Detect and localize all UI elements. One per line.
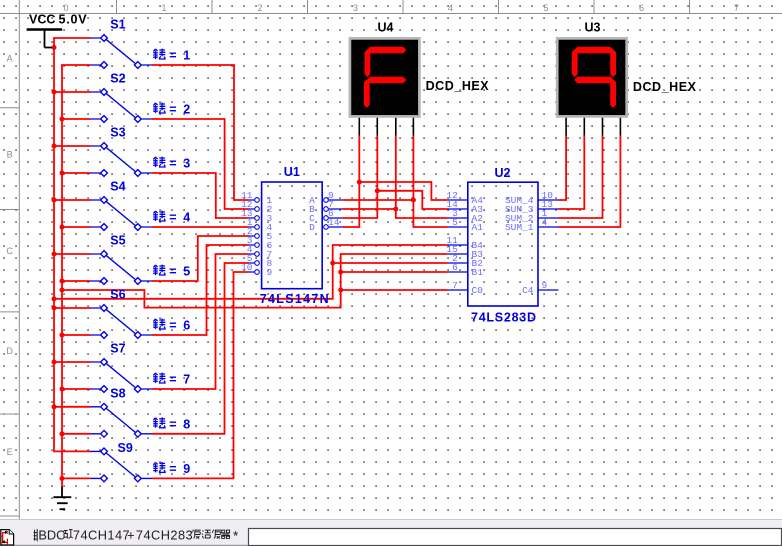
wire VCC bus tap to S6 upper throw <box>54 307 91 309</box>
wire VCC bus tap to S7 upper throw <box>54 361 91 363</box>
wire U2 SUM_2 to U3 pin3 <box>559 135 603 218</box>
switch S5 (key 5) <box>91 251 153 285</box>
wire node C branch to U2 A3 <box>377 191 447 209</box>
svg-text:=: = <box>169 211 176 225</box>
svg-text:7: 7 <box>452 280 458 291</box>
switch S7 (key 7) <box>91 359 153 393</box>
svg-text:5: 5 <box>183 265 190 279</box>
svg-text:DCD_HEX: DCD_HEX <box>633 80 697 94</box>
svg-text:VCC: VCC <box>29 13 55 27</box>
label 键 = 9 <box>153 462 166 472</box>
wire U2 SUM_4 to U3 pin1 <box>559 135 567 200</box>
U3 pins (black) <box>566 118 620 136</box>
wire S1 output to U1 input 1 <box>152 65 249 200</box>
border frame: top ruler line <box>0 13 782 15</box>
svg-text:S2: S2 <box>110 72 125 86</box>
wire GND bus tap to S6 lower throw <box>62 334 91 336</box>
svg-text:=: = <box>169 319 176 333</box>
U2 pin numbers <box>446 190 458 291</box>
svg-text:=: = <box>169 373 176 387</box>
svg-text:+: + <box>127 528 134 543</box>
ruler column numbers 0-7 <box>63 3 739 13</box>
wire S9 output to U1 input 9 <box>152 272 249 478</box>
wire GND bus tap to S3 lower throw <box>62 172 91 174</box>
wire VCC bus tap to S8 upper throw <box>54 406 91 408</box>
label 键 = 3 <box>153 157 166 167</box>
svg-text:74LS147N: 74LS147N <box>260 292 330 306</box>
svg-text:4: 4 <box>448 3 453 13</box>
wire VCC bus tap to S2 upper throw <box>54 91 91 93</box>
switch S6 (key 6) <box>91 305 153 339</box>
switch S4 (key 4) <box>91 197 153 231</box>
svg-text:S9: S9 <box>118 441 133 455</box>
wire VCC bus tap to S5 upper throw <box>54 253 91 255</box>
svg-text:S6: S6 <box>110 288 125 302</box>
U1 pin numbers <box>241 190 253 273</box>
wire U4 pin4 down to U2 A1 <box>413 135 447 227</box>
wire node D branch to U2 A4 <box>359 182 447 200</box>
svg-text:U2: U2 <box>495 166 511 180</box>
wire GND line to U2 B3 <box>62 254 448 308</box>
wire branch to U2 B2 <box>333 262 448 264</box>
wire junctions <box>52 45 416 481</box>
svg-text:7: 7 <box>183 373 190 387</box>
svg-text:5: 5 <box>543 3 548 13</box>
svg-text:U1: U1 <box>284 165 300 179</box>
svg-text:6: 6 <box>452 262 458 273</box>
svg-text:=: = <box>169 103 176 117</box>
svg-text:6: 6 <box>639 3 644 13</box>
wire GND bus tap to S9 lower throw <box>62 477 91 479</box>
svg-text:S1: S1 <box>110 18 125 32</box>
svg-text:A1: A1 <box>472 222 484 233</box>
svg-text:SUM_1: SUM_1 <box>505 222 534 233</box>
wire U4 pin2 down joining U1 output C <box>342 135 377 218</box>
label 键 = 2 <box>153 103 166 113</box>
wire branch to U2 C0 <box>341 289 448 291</box>
wire GND bus tap to S8 lower throw <box>62 433 91 435</box>
svg-text:B: B <box>7 150 13 160</box>
svg-text:4: 4 <box>183 211 190 225</box>
svg-text:S7: S7 <box>110 342 125 356</box>
svg-text:BDC: BDC <box>38 528 65 543</box>
switch S3 (key 3) <box>91 143 153 177</box>
display U3 DCD_HEX seven-segment <box>557 38 627 116</box>
wire U1 output B to node <box>342 208 396 210</box>
tab label text <box>34 528 240 544</box>
svg-text:E: E <box>7 447 13 457</box>
label 键 = 5 <box>153 265 166 275</box>
wire GND bus tap to S2 lower throw <box>62 118 91 120</box>
svg-text:5.0V: 5.0V <box>59 13 88 27</box>
ground <box>53 486 71 509</box>
svg-text:=: = <box>169 462 176 476</box>
ruler row dividers <box>0 108 19 516</box>
switch S8 (key 8) <box>91 403 153 437</box>
svg-text:7: 7 <box>734 3 739 13</box>
svg-text:74LS283D: 74LS283D <box>471 311 537 325</box>
switch S2 (key 2) <box>91 89 153 123</box>
wire S5 output to U1 input 5 <box>152 236 249 281</box>
svg-text:D: D <box>6 346 13 356</box>
wire GND bus vertical with S1 elbow <box>62 65 91 478</box>
wire S6 output to U1 input 6 <box>152 245 249 335</box>
switch S1 (key 1) <box>91 35 153 69</box>
wire U2 SUM_1 to U3 pin4 <box>559 135 621 227</box>
wire U2 SUM_3 to U3 pin2 <box>559 135 585 209</box>
label 键 = 8 <box>153 417 166 427</box>
wire U4 pin1 down joining U1 output D <box>342 135 359 227</box>
switch S9 (key 9) <box>91 448 153 482</box>
border frame: left margin line <box>18 0 20 519</box>
tab edit box <box>249 529 782 546</box>
wire S8 output to U1 input 8 <box>152 263 249 434</box>
U2 pin stubs <box>448 200 559 290</box>
wire branch to U2 B1 <box>341 271 448 273</box>
svg-text:9: 9 <box>183 462 190 476</box>
svg-text:C: C <box>6 246 13 256</box>
U1 pin stubs <box>249 200 343 272</box>
svg-text:B1: B1 <box>472 267 484 278</box>
svg-text:=: = <box>169 157 176 171</box>
U1 inversion bubbles <box>255 198 329 275</box>
wire U4 pin3 down to U2 A2 <box>396 135 448 218</box>
svg-text:DCD_HEX: DCD_HEX <box>426 79 490 93</box>
U1 pin names <box>267 195 273 278</box>
svg-text:S4: S4 <box>110 180 125 194</box>
svg-text:1: 1 <box>183 49 190 63</box>
svg-text:74CH147: 74CH147 <box>73 528 130 543</box>
svg-text:2: 2 <box>257 3 262 13</box>
wire VCC bus tap to S4 upper throw <box>54 199 91 201</box>
wire GND bus tap to S7 lower throw <box>62 388 91 390</box>
label 键 = 7 <box>153 373 166 383</box>
svg-text:=: = <box>169 265 176 279</box>
svg-text:1: 1 <box>161 3 166 13</box>
svg-text:3: 3 <box>183 157 190 171</box>
svg-text:C0: C0 <box>472 285 484 296</box>
wire S3 output to U1 input 3 <box>152 173 249 218</box>
label 键 = 6 <box>153 319 166 329</box>
wire U1 output A to node <box>342 199 413 201</box>
U2 pin names <box>472 195 484 296</box>
svg-text:3: 3 <box>353 3 358 13</box>
op-chip U2 74LS283D 4-bit adder <box>468 182 538 306</box>
svg-text:9: 9 <box>267 267 273 278</box>
svg-text:14: 14 <box>328 217 340 228</box>
svg-text:74CH283: 74CH283 <box>136 528 193 543</box>
svg-text:=: = <box>169 49 176 63</box>
wire VCC line to U2 B4 <box>54 245 448 299</box>
svg-text:U4: U4 <box>378 20 394 34</box>
svg-text:0: 0 <box>63 3 68 13</box>
tab document icon <box>0 530 13 545</box>
svg-text:=: = <box>169 418 176 432</box>
wire VCC bus vertical with S1/S9 elbows <box>54 38 91 451</box>
svg-text:D: D <box>309 222 315 233</box>
label 键 = 1 <box>153 49 166 59</box>
wire GND bus tap to S4 lower throw <box>62 226 91 228</box>
ruler row letters A-E <box>6 54 13 458</box>
display U4 DCD_HEX seven-segment <box>350 38 420 116</box>
svg-text:*: * <box>233 528 239 543</box>
svg-text:S8: S8 <box>110 386 125 400</box>
svg-text:9: 9 <box>542 280 548 291</box>
svg-text:S3: S3 <box>110 126 125 140</box>
U4 pins (black) <box>359 118 413 136</box>
svg-text:10: 10 <box>241 262 253 273</box>
bottom tab bar <box>0 519 782 546</box>
svg-text:A: A <box>7 54 13 64</box>
label 键 = 4 <box>153 211 166 221</box>
power VCC 5.0V <box>27 30 63 48</box>
svg-text:8: 8 <box>183 418 190 432</box>
svg-text:6: 6 <box>183 319 190 333</box>
wire S7 output to U1 input 7 <box>152 254 249 389</box>
ruler column ticks <box>117 0 690 14</box>
svg-text:4: 4 <box>542 217 548 228</box>
svg-text:5: 5 <box>452 217 458 228</box>
svg-text:U3: U3 <box>585 20 601 34</box>
op-chip U1 74LS147N priority encoder <box>262 182 323 289</box>
wire GND bus tap to S5 lower throw <box>62 280 91 282</box>
svg-text:2: 2 <box>183 103 190 117</box>
wire VCC bus tap to S3 upper throw <box>54 145 91 147</box>
svg-text:C4: C4 <box>522 285 534 296</box>
svg-text:S5: S5 <box>110 234 125 248</box>
wire S4 output to U1 input 4 <box>152 226 249 228</box>
wire S2 output to U1 input 2 <box>152 119 249 209</box>
